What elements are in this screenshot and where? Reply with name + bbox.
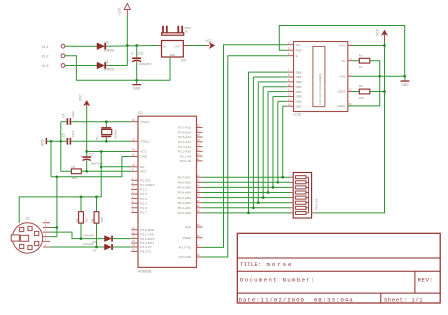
svg-text:P0.4-AD4: P0.4-AD4 xyxy=(178,191,192,195)
svg-text:P1.0T2: P1.0T2 xyxy=(140,178,150,182)
svg-text:Sheet: 1/1: Sheet: 1/1 xyxy=(384,296,423,303)
svg-text:2200/25V: 2200/25V xyxy=(139,62,152,66)
svg-text:1N4001: 1N4001 xyxy=(104,68,115,72)
voltage regulator IC5 xyxy=(158,41,189,63)
svg-text:P2.3-A11: P2.3-A11 xyxy=(178,145,191,149)
wire GND column down to GND jog row xyxy=(50,141,52,177)
svg-text:LCD 2x16 (LED backlight): LCD 2x16 (LED backlight) xyxy=(318,74,322,105)
svg-text:P2.6-A14: P2.6-A14 xyxy=(178,131,191,135)
svg-text:DB6: DB6 xyxy=(296,100,302,104)
svg-text:1N4001: 1N4001 xyxy=(104,48,115,52)
svg-text:DB5: DB5 xyxy=(296,95,302,99)
svg-text:PSEN: PSEN xyxy=(183,236,191,240)
svg-text:1N4148: 1N4148 xyxy=(83,233,94,237)
svg-text:33pF: 33pF xyxy=(71,111,75,118)
wire R3 right to VCC column xyxy=(370,91,385,93)
crystal Q1 12MHz xyxy=(95,122,118,142)
svg-text:P3.2-INT0: P3.2-INT0 xyxy=(140,237,154,241)
svg-text:DB7: DB7 xyxy=(296,104,302,108)
resistor R4 4K7 (pull-up) xyxy=(75,197,89,239)
svg-text:P3.0-RXD: P3.0-RXD xyxy=(140,228,155,232)
resistor R1 10K xyxy=(71,165,81,180)
svg-text:Rz: Rz xyxy=(359,53,363,57)
wire D4 to rail riser xyxy=(106,65,127,67)
resistor network RN1 xyxy=(290,173,318,219)
wire +12V to input rail xyxy=(126,16,128,46)
wire LCD E net to MCU P3.6 xyxy=(203,56,288,257)
svg-text:VCC: VCC xyxy=(206,39,213,43)
wire RN1 common to VCC column xyxy=(314,41,384,213)
svg-text:+12V: +12V xyxy=(118,7,122,15)
svg-text:P2.7-A15: P2.7-A15 xyxy=(178,126,191,130)
op box IC2 AT89S52 outline xyxy=(138,111,197,273)
junctions DB verticals onto P0 rows xyxy=(247,72,284,214)
svg-text:GND: GND xyxy=(169,53,175,57)
svg-text:P3.6-WR: P3.6-WR xyxy=(178,255,191,259)
svg-text:D2: D2 xyxy=(93,248,97,252)
MCU right pins with numbers xyxy=(178,125,203,260)
svg-text:1K: 1K xyxy=(359,65,363,69)
svg-text:VO: VO xyxy=(341,59,346,63)
wire GND bar to C5 left xyxy=(47,140,67,142)
svg-text:D3: D3 xyxy=(105,41,109,45)
svg-text:Document Number:: Document Number: xyxy=(240,276,316,283)
svg-text:P2.1-A9: P2.1-A9 xyxy=(180,154,191,158)
svg-text:X1-3: X1-3 xyxy=(42,64,49,68)
wire riser D4 up to rail xyxy=(126,46,128,66)
svg-text:P1.7: P1.7 xyxy=(140,211,147,215)
svg-text:6: 6 xyxy=(45,224,47,227)
wire LCD RS net to MCU P3.7 xyxy=(203,45,288,248)
junction C11 on rail xyxy=(135,44,138,47)
svg-text:VCC: VCC xyxy=(375,28,379,35)
junction C3 bottom on RST row xyxy=(85,170,88,173)
svg-text:P1.2: P1.2 xyxy=(140,188,147,192)
svg-text:LCD1: LCD1 xyxy=(294,113,302,117)
junction C4 column on XTAL2 row xyxy=(59,140,62,143)
wire RST row R1 to MCU pin 9 xyxy=(81,170,131,172)
MCU left pins with numbers xyxy=(131,119,155,254)
wire LCD VSS row to GND xyxy=(353,75,405,77)
svg-text:P1.4: P1.4 xyxy=(140,197,147,201)
connector X1-3 xyxy=(42,64,65,69)
wire C4 left to down corner xyxy=(61,121,67,123)
svg-text:XTAL2: XTAL2 xyxy=(140,140,150,144)
ground symbol below C11 xyxy=(132,80,141,90)
title block frame xyxy=(237,233,440,303)
connector X1-1 xyxy=(42,44,65,49)
svg-text:78: 78 xyxy=(184,29,188,33)
wire X2 ground pin2 to column xyxy=(50,236,57,238)
diode D3 1N4001 xyxy=(97,41,115,53)
svg-text:R/W: R/W xyxy=(296,48,302,52)
svg-text:P0.3-AD3: P0.3-AD3 xyxy=(178,196,192,200)
svg-text:330: 330 xyxy=(359,96,364,100)
svg-text:C3: C3 xyxy=(89,153,93,157)
wire X1-2 ground return xyxy=(65,56,170,80)
capacitor C5 33pF xyxy=(61,130,75,144)
resistor R5 10K (pull-up) xyxy=(90,197,104,247)
svg-text:VCC: VCC xyxy=(140,150,147,154)
svg-text:VCC: VCC xyxy=(339,44,346,48)
svg-text:4: 4 xyxy=(45,244,47,247)
junction top-wire at VSS/GND row xyxy=(403,75,406,78)
svg-text:AT89S52: AT89S52 xyxy=(138,270,152,274)
svg-text:VSS: VSS xyxy=(339,74,345,78)
wire LCD VCC pin to VCC column xyxy=(353,45,385,47)
wire PS2 ground column xyxy=(56,177,58,237)
wire LCD DB pins staircase corners xyxy=(249,72,288,106)
svg-text:P1.3: P1.3 xyxy=(140,192,147,196)
svg-text:IN: IN xyxy=(163,45,166,49)
svg-text:P0.6-AD6: P0.6-AD6 xyxy=(178,181,192,185)
resistor Rz 1K xyxy=(359,53,370,69)
svg-text:C4: C4 xyxy=(61,113,65,117)
svg-text:LEDK: LEDK xyxy=(338,104,347,108)
power symbol VCC right xyxy=(375,28,387,41)
junction LCD VCC on VCC column xyxy=(383,44,386,47)
capacitor C4 33pF xyxy=(61,111,75,125)
wire GND jog row xyxy=(51,157,131,177)
wire X1-1 to D3 xyxy=(65,45,97,47)
wire LCD VO to Rz xyxy=(353,60,360,62)
wire X2 ground pin to ground column xyxy=(50,227,57,229)
wire C4 column down to R1 row xyxy=(60,122,62,172)
svg-text:RST: RST xyxy=(140,170,146,174)
svg-text:P0.7-AD7: P0.7-AD7 xyxy=(178,175,192,179)
svg-text:X1-1: X1-1 xyxy=(42,45,49,49)
svg-text:X2: X2 xyxy=(25,217,29,221)
junction pull-up column at VCC row xyxy=(100,150,103,153)
LCD right pins with numbers xyxy=(338,43,353,109)
svg-text:XTAL1: XTAL1 xyxy=(140,120,150,124)
diode D4 1N4001 xyxy=(97,60,115,72)
wire X1-3 to D4 xyxy=(65,65,97,67)
junction R4 top on pull-up row xyxy=(80,196,83,199)
ground symbol left (rotated) xyxy=(41,138,48,146)
connector X2 PS/2 mini-DIN xyxy=(11,217,43,254)
svg-text:DB4: DB4 xyxy=(296,90,302,94)
svg-text:P2.5-A13: P2.5-A13 xyxy=(178,135,191,139)
LCD left pins with numbers xyxy=(287,42,302,109)
power symbol +12V xyxy=(118,4,131,17)
svg-text:Date:11/02/2009 08:33:04a: Date:11/02/2009 08:33:04a xyxy=(239,296,354,303)
wire VCC down to MCU VCC row xyxy=(86,107,88,152)
svg-text:2: 2 xyxy=(45,220,47,223)
junction PS2 ground column on GND jog row xyxy=(56,175,59,178)
junction GND column on XTAL2 row xyxy=(50,140,53,143)
svg-text:+: + xyxy=(80,155,82,159)
wire X2 data to D1 row xyxy=(50,232,104,239)
svg-text:P0.2-AD2: P0.2-AD2 xyxy=(178,201,192,205)
svg-text:DB0: DB0 xyxy=(296,70,302,74)
svg-text:P0.0-AD0: P0.0-AD0 xyxy=(178,211,192,215)
svg-text:P3.4-T0: P3.4-T0 xyxy=(140,245,151,249)
svg-text:+: + xyxy=(131,52,133,56)
svg-text:DB1: DB1 xyxy=(296,75,302,79)
svg-text:P1.5: P1.5 xyxy=(140,201,147,205)
svg-text:RS: RS xyxy=(296,43,300,47)
junction pull-up column on RST row xyxy=(100,165,103,168)
svg-text:Q1: Q1 xyxy=(95,136,99,140)
capacitor C3 10uF/16V xyxy=(80,152,103,172)
svg-text:X1-2: X1-2 xyxy=(42,54,49,58)
svg-text:DB3: DB3 xyxy=(296,85,302,89)
connector X1-2 xyxy=(42,54,65,59)
svg-text:33pF: 33pF xyxy=(71,130,75,137)
svg-text:E: E xyxy=(296,54,298,58)
svg-text:12MHz: 12MHz xyxy=(113,129,117,139)
wire Rz right to GND column xyxy=(348,61,380,106)
svg-text:C5: C5 xyxy=(61,133,65,137)
resistor R3 330 xyxy=(359,84,370,100)
junction R5 top on pull-up row xyxy=(95,196,98,199)
wire pull-up VCC row xyxy=(19,152,101,224)
svg-text:5: 5 xyxy=(45,234,47,237)
svg-text:P1.1T2EX: P1.1T2EX xyxy=(140,183,154,187)
junction GND column at VSS row xyxy=(378,75,381,78)
svg-text:DB2: DB2 xyxy=(296,80,302,84)
svg-text:P2.4-A12: P2.4-A12 xyxy=(178,140,191,144)
pin stubs X2 xyxy=(43,220,50,247)
wire X2 clock to D2 row xyxy=(50,246,104,248)
svg-text:P3.1-TXD: P3.1-TXD xyxy=(140,232,154,236)
junction VCC line at VCC row xyxy=(85,150,88,153)
wire XTAL1 row C4 to MCU xyxy=(71,121,131,123)
svg-text:4K7: 4K7 xyxy=(84,217,88,223)
svg-text:LEDA: LEDA xyxy=(338,90,347,94)
junction C11 bottom on ground return xyxy=(135,79,138,82)
wire LCD RW to GND top wire xyxy=(279,26,404,77)
svg-text:P0.1-AD1: P0.1-AD1 xyxy=(178,206,192,210)
svg-text:EA: EA xyxy=(140,165,145,169)
svg-text:GND: GND xyxy=(41,138,45,146)
svg-text:RN1 10K: RN1 10K xyxy=(314,198,318,209)
svg-text:P2.2-A10: P2.2-A10 xyxy=(178,150,191,154)
wire C4 column corner to R1 xyxy=(61,170,72,172)
svg-text:C11: C11 xyxy=(138,52,144,56)
wire EA row to MCU pin 31 xyxy=(101,166,131,168)
junction crystal bottom on XTAL2 row xyxy=(105,140,108,143)
svg-text:R3: R3 xyxy=(359,84,363,88)
junction R4 bottom on D1 row xyxy=(80,237,83,240)
svg-text:P3.5-T1: P3.5-T1 xyxy=(140,250,151,254)
wire D3 cathode to regulator input rail xyxy=(106,45,157,48)
svg-text:D4: D4 xyxy=(105,60,109,64)
wire regulator out to VCC xyxy=(188,45,206,47)
svg-text:TITLE:: TITLE: xyxy=(240,261,261,268)
power symbol VCC at regulator output xyxy=(206,39,215,48)
junction on PS2 ground column xyxy=(56,226,59,229)
op box LCD1 outline xyxy=(294,42,348,117)
wire D1 to MCU pin 12 xyxy=(113,238,131,240)
wire D2 to MCU pin 14 xyxy=(113,246,131,248)
wire XTAL2 row C5 to MCU xyxy=(71,140,131,142)
svg-text:P1.6: P1.6 xyxy=(140,206,147,210)
svg-text:GND: GND xyxy=(140,155,148,159)
ground symbol right xyxy=(401,76,410,87)
junction +12V/D4 on rail xyxy=(126,44,129,47)
svg-text:GND: GND xyxy=(401,83,409,87)
svg-text:10K: 10K xyxy=(100,217,104,222)
diode D2 1N4148 xyxy=(83,242,113,252)
svg-text:IC5: IC5 xyxy=(181,59,186,63)
capacitor C11 2200uF/25V xyxy=(131,46,151,81)
svg-text:ALE: ALE xyxy=(185,225,191,229)
diode D1 1N4148 xyxy=(83,233,113,243)
svg-text:P2.0-A8: P2.0-A8 xyxy=(180,159,191,163)
junction crystal top on XTAL1 row xyxy=(105,120,108,123)
junction R5 bottom on D2 row xyxy=(95,246,98,249)
svg-text:1: 1 xyxy=(45,238,47,241)
heatsink SINK 78 above IC5 xyxy=(162,26,192,35)
power symbol VCC near crystal xyxy=(79,94,90,108)
svg-text:P0.5-AD5: P0.5-AD5 xyxy=(178,186,192,190)
junction R3 on VCC column xyxy=(383,90,386,93)
svg-text:REV:: REV: xyxy=(418,276,434,283)
svg-text:VCC: VCC xyxy=(79,94,83,101)
svg-text:morse: morse xyxy=(267,261,294,268)
svg-text:P3.7-RD: P3.7-RD xyxy=(179,246,192,250)
svg-text:IC2: IC2 xyxy=(138,111,143,115)
svg-text:OUT: OUT xyxy=(175,45,181,49)
svg-text:3: 3 xyxy=(45,229,47,232)
wire LCD LEDA to R3 xyxy=(353,91,360,93)
svg-text:GND: GND xyxy=(133,87,141,91)
svg-text:1N4148: 1N4148 xyxy=(83,242,94,246)
wire P0 bus rows MCU to RN1 xyxy=(203,177,291,213)
wire VCC row to MCU pin 40 xyxy=(87,151,132,153)
